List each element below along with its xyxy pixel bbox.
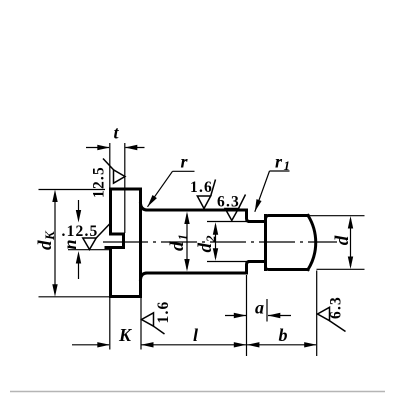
l dim line [141,344,246,346]
svg-text:2: 2 [203,235,218,243]
t right arrow (points left) [125,145,138,150]
svg-text:r: r [275,152,283,172]
svg-text:l: l [193,325,198,345]
dK dimension line [54,194,56,293]
ext: ball left face (a) [266,299,268,322]
d2 dim line [215,225,217,258]
svg-text:1.6: 1.6 [190,179,213,196]
ext: head right face down [140,298,142,350]
a dim right shaft [268,315,291,317]
ext: shaft end down [246,275,248,356]
svg-text:K: K [118,325,133,345]
svg-text:d: d [332,235,353,245]
center line [103,241,337,243]
b right arrow (points right) [304,342,317,347]
d2 down arrow [213,248,218,261]
ext: head left face down [109,298,111,350]
d2 bottom extension [207,261,250,263]
spherical end arc [308,216,316,270]
svg-text:K: K [42,230,57,241]
n bottom arrow shaft [78,260,80,279]
d bottom extension [317,268,365,270]
svg-text:1.6: 1.6 [155,301,172,324]
label d2 rotated [195,235,218,253]
roughness 6.3 on d2 extension [225,195,245,221]
n top arrow (points down) [76,210,81,223]
dK down arrow [52,284,57,297]
svg-text:r: r [180,152,188,172]
head top [111,188,141,191]
dK up arrow [52,190,57,203]
shaft bottom line [147,272,247,275]
ball bottom line [266,267,309,270]
shaft end face upper [247,210,250,222]
l right arrow (points right) [234,342,247,347]
head left face (broken by slot) [109,189,112,234]
thin dimension / extension lines [39,143,365,356]
ext: ball right end down [316,271,318,357]
svg-text:6.3: 6.3 [328,296,345,319]
svg-text:12.5: 12.5 [90,166,107,198]
a left arrow (points right) [234,313,247,318]
t dim line left [86,147,109,149]
bottom chain: K left shaft [72,344,109,346]
K left arrow (points right) [97,342,110,347]
faint scan line at bottom [10,391,385,393]
svg-text:1: 1 [175,234,190,241]
svg-text:.12.5: .12.5 [62,223,99,240]
r1 leader [255,171,270,212]
d1 dim line [186,214,188,269]
roughness 12.5 with nabla at slot (leader) [83,223,111,250]
ball left face [264,216,267,270]
K/l shared arrow at head right face (points left) [141,342,154,347]
a right arrow (points left) [268,313,281,318]
svg-text:6.3: 6.3 [217,194,240,211]
d down arrow [348,257,353,270]
roughness symbol 12.5 rotated at slot-bottom extension [103,159,125,184]
d2 up arrow [213,222,218,235]
t left arrow (points right) [97,145,110,150]
screw body outline [106,189,316,297]
d1 down arrow [184,259,189,272]
neck bottom line [250,260,266,263]
d dim line [350,219,352,266]
svg-text:d: d [195,243,216,253]
r leader underline [173,170,195,172]
svg-text:d: d [35,240,56,250]
n extension line [68,249,112,251]
shaft end face lower [247,262,250,274]
b dim line [247,344,316,346]
dK top extension [39,189,106,191]
r1 leader underline [270,170,290,172]
svg-text:t: t [113,123,119,143]
t dim line right [126,147,145,149]
neck top line [250,220,266,223]
r leader [148,171,173,207]
label d1 rotated [167,234,190,251]
slot [106,234,124,248]
t extension left [109,143,111,188]
label dK rotated [35,230,57,250]
d up arrow [348,216,353,229]
a dim left shaft [225,315,246,317]
n top arrow shaft [78,200,80,213]
d1 up arrow [184,212,189,225]
svg-text:b: b [279,325,288,345]
roughness 6.3 rotated at ball-end extension [318,307,346,331]
svg-text:d: d [167,241,188,251]
dK bottom extension [39,296,111,298]
d top extension [308,215,365,217]
roughness 1.6 on shaft top [197,180,215,209]
svg-text:a: a [255,298,264,318]
svg-text:n: n [60,239,80,249]
b left arrow (points left) [247,342,260,347]
head right face [139,189,142,297]
shaft top line [147,209,247,212]
n bottom arrow (points up) [76,251,81,264]
fillet r top [141,204,148,211]
roughness 1.6 rotated at head right face extension [142,313,165,334]
t extension right [124,143,126,233]
head bottom [111,295,141,298]
svg-text:1: 1 [284,158,291,173]
d2 top extension [207,221,250,223]
ball top line [266,216,309,219]
arrowheads [52,145,353,348]
fillet r bottom [141,273,148,280]
